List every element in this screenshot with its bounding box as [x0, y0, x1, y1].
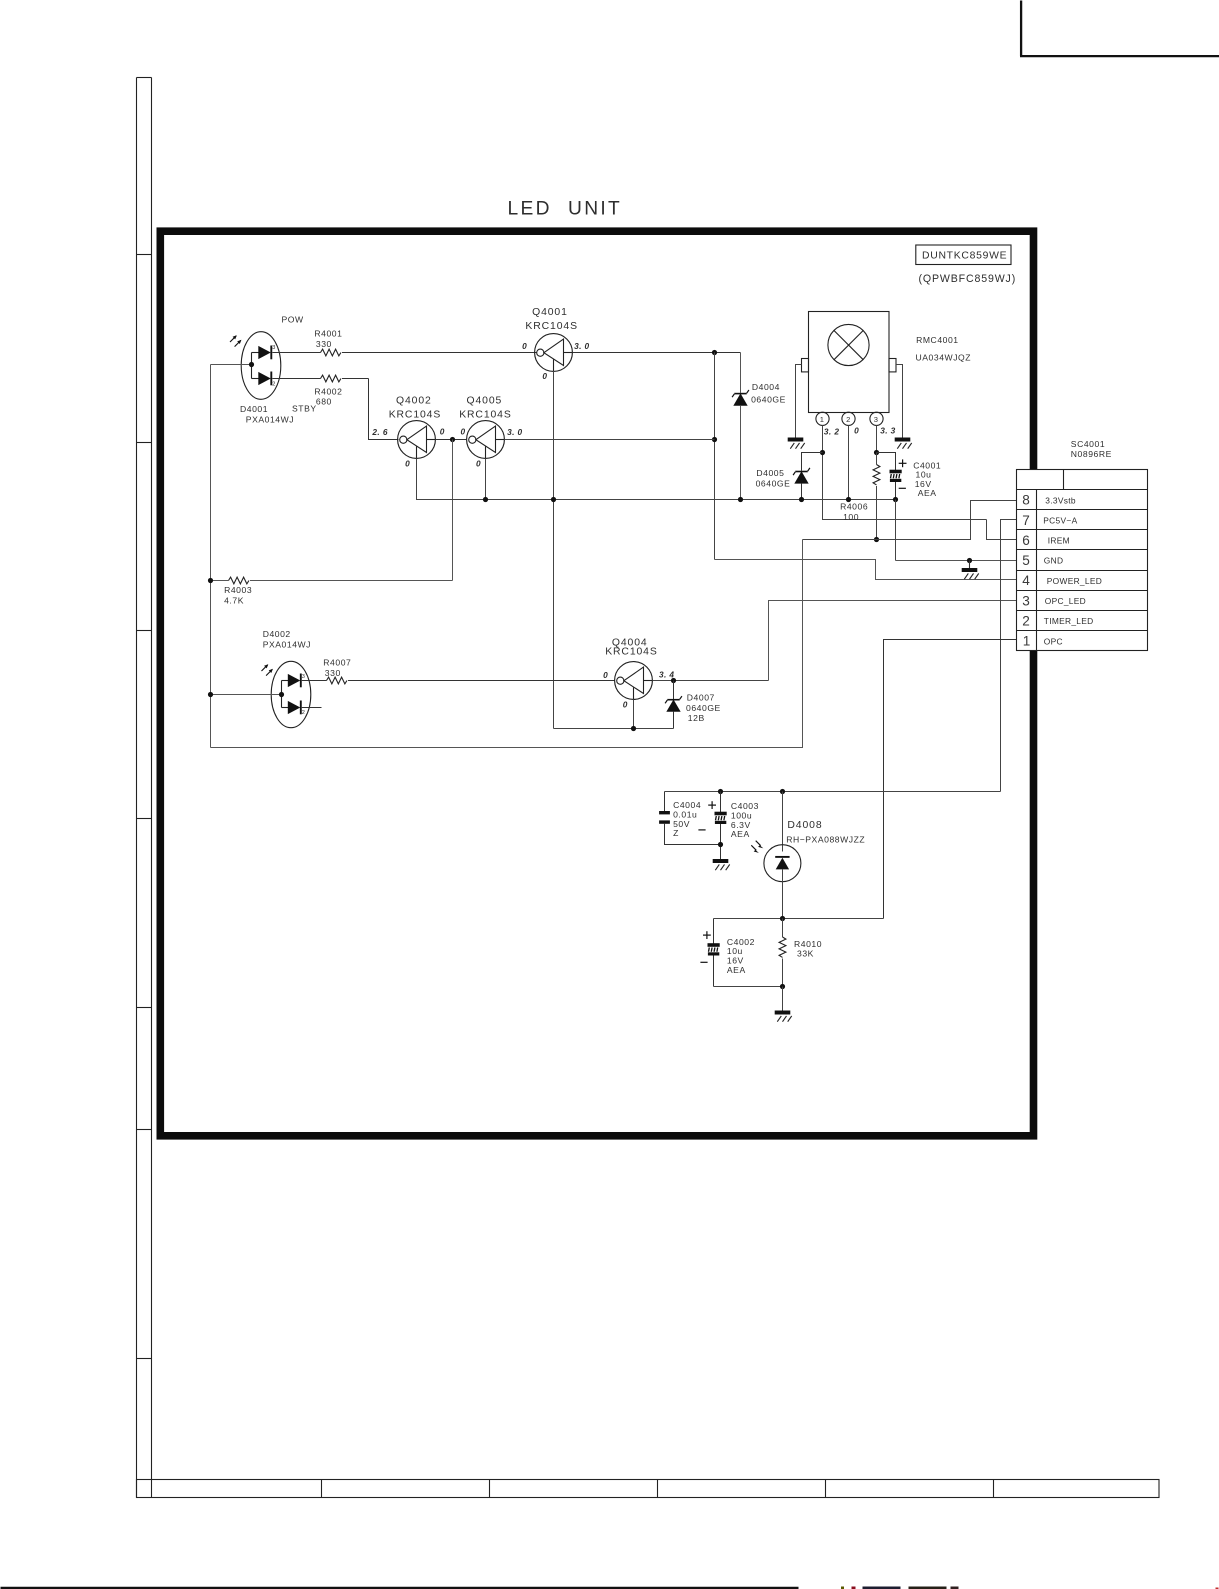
- wire Q4004 emitter down: [633, 700, 635, 729]
- node C4003/C4004 bottom junction: [718, 842, 723, 847]
- node chassis ground tap: [967, 558, 972, 563]
- svg-text:AEA: AEA: [918, 488, 937, 498]
- resistor R4001: [272, 349, 536, 356]
- svg-text:Z: Z: [673, 828, 679, 838]
- svg-text:1: 1: [820, 415, 824, 424]
- wire GND row5 to SC4001: [896, 560, 1018, 562]
- svg-text:N0896RE: N0896RE: [1071, 449, 1112, 459]
- svg-text:0: 0: [603, 670, 608, 680]
- svg-text:AEA: AEA: [727, 965, 746, 975]
- svg-text:D4007: D4007: [687, 693, 715, 703]
- wire OPC from SC4001 pin1: [884, 640, 1018, 919]
- wire D4002 lower cathode stub: [302, 707, 322, 709]
- svg-text:R4002: R4002: [314, 386, 342, 396]
- node D4008 top on rail: [780, 789, 785, 794]
- svg-text:AEA: AEA: [731, 829, 750, 839]
- svg-text:0: 0: [623, 700, 628, 710]
- node pin1 lead / D4005 branch: [820, 450, 825, 455]
- svg-text:PXA014WJ: PXA014WJ: [246, 415, 294, 425]
- svg-text:2. 6: 2. 6: [371, 427, 387, 437]
- svg-text:330: 330: [316, 339, 332, 349]
- svg-text:3.3Vstb: 3.3Vstb: [1045, 495, 1076, 505]
- svg-text:IREM: IREM: [1048, 536, 1070, 546]
- top-right corner frame box: [1020, 1, 1219, 57]
- svg-text:Q4001: Q4001: [532, 307, 568, 318]
- chassis ground symbol: [962, 561, 979, 580]
- wire collector rail vertical x714: [714, 353, 716, 560]
- capacitor C4002: [708, 919, 720, 987]
- wire D4001 common to left rail: [211, 364, 252, 366]
- node Q4002/Q4005 junction: [450, 437, 455, 442]
- svg-text:0: 0: [405, 459, 410, 469]
- svg-text:KRC104S: KRC104S: [605, 646, 658, 657]
- svg-text:UA034WJQZ: UA034WJQZ: [916, 352, 972, 362]
- svg-text:KRC104S: KRC104S: [525, 321, 578, 332]
- node D4008 bottom / R4010 top: [780, 916, 785, 921]
- svg-text:PC5V−A: PC5V−A: [1043, 515, 1077, 525]
- svg-text:OPC: OPC: [1044, 636, 1063, 646]
- wire Q4005 out to collector rail: [505, 439, 715, 441]
- wire D4002 common to left rail: [211, 694, 282, 696]
- node Q4004 out / D4007 junction: [671, 678, 676, 683]
- svg-text:33K: 33K: [797, 949, 814, 959]
- transistor Q4002 KRC104S: [398, 421, 436, 459]
- connector SC4001 N0896RE: [1017, 470, 1148, 651]
- svg-text:3. 4: 3. 4: [659, 670, 674, 680]
- node Q4005 emitter on bus: [483, 497, 488, 502]
- svg-text:D4005: D4005: [756, 468, 784, 478]
- svg-text:0: 0: [854, 426, 859, 436]
- resistor R4002: [272, 375, 368, 382]
- svg-text:(QPWBFC859WJ): (QPWBFC859WJ): [919, 273, 1017, 285]
- svg-text:PXA014WJ: PXA014WJ: [263, 640, 311, 650]
- wire Q4002 emitter to gnd bus: [417, 459, 486, 500]
- svg-text:R4006: R4006: [840, 502, 868, 512]
- zener D4004: [732, 353, 749, 500]
- DUNTKC859WE box: [916, 245, 1011, 265]
- capacitor C4003: [715, 792, 727, 860]
- svg-text:TIMER_LED: TIMER_LED: [1044, 616, 1094, 626]
- svg-text:KRC104S: KRC104S: [459, 409, 512, 420]
- svg-text:2: 2: [272, 381, 275, 387]
- ground below C4003: [713, 859, 730, 870]
- svg-text:680: 680: [316, 397, 332, 407]
- wire R4002 elbow down to Q4002 input: [369, 379, 399, 440]
- clipped footer text artifacts: [841, 1587, 1219, 1589]
- node Q4001 emitter on bus: [551, 497, 556, 502]
- svg-text:POW: POW: [282, 315, 305, 325]
- svg-text:STBY: STBY: [292, 403, 317, 413]
- resistor R4007: [302, 677, 615, 684]
- svg-text:12B: 12B: [688, 713, 705, 723]
- node left rail at D4002: [208, 692, 213, 697]
- svg-text:3: 3: [874, 415, 878, 424]
- svg-text:GND: GND: [1044, 556, 1064, 566]
- left margin ruler: [137, 78, 152, 1498]
- svg-text:2: 2: [846, 415, 850, 424]
- svg-text:0: 0: [440, 426, 445, 436]
- svg-text:KRC104S: KRC104S: [389, 409, 442, 420]
- svg-text:Q4005: Q4005: [467, 396, 503, 407]
- svg-text:0640GE: 0640GE: [756, 478, 791, 488]
- node R4003 on left rail: [208, 578, 213, 583]
- remote receiver RMC4001 UA034WJQZ: [802, 312, 897, 413]
- minus mark C4001: [899, 487, 906, 489]
- svg-text:0640GE: 0640GE: [751, 394, 786, 404]
- capacitor C4001: [877, 453, 902, 500]
- svg-text:3. 0: 3. 0: [574, 341, 589, 351]
- wire Q4002 out to Q4005 in: [436, 439, 467, 441]
- wire RMC left tab to ground: [796, 365, 802, 438]
- svg-text:3: 3: [1022, 593, 1030, 608]
- wire to ground below R4010: [782, 987, 784, 1011]
- wire RMC right tab to ground: [896, 365, 903, 438]
- svg-text:POWER_LED: POWER_LED: [1047, 576, 1102, 586]
- node R4006 bottom on 3.3Vstb rail: [874, 537, 879, 542]
- svg-text:0640GE: 0640GE: [686, 703, 721, 713]
- wire PC5V-A from SC4001 pin7: [1001, 520, 1018, 792]
- svg-text:1: 1: [1023, 634, 1031, 649]
- svg-text:3. 0: 3. 0: [507, 427, 522, 437]
- node D4005 on bus: [799, 497, 804, 502]
- svg-text:4.7K: 4.7K: [224, 595, 244, 605]
- svg-text:D4004: D4004: [752, 382, 780, 392]
- wire left rail vertical: [210, 365, 212, 748]
- node pin2 on bus: [846, 497, 851, 502]
- svg-text:RMC4001: RMC4001: [916, 335, 959, 345]
- wire pin3 lead: [876, 425, 878, 463]
- resistor R4010 vertical: [779, 919, 786, 987]
- svg-text:3: 3: [272, 345, 275, 351]
- capacitor C4004: [659, 792, 720, 845]
- node D4004 on bus: [738, 497, 743, 502]
- ground below R4010: [775, 1011, 792, 1022]
- node Q4001 out / collector rail junction: [712, 350, 717, 355]
- resistor R4006 vertical: [873, 453, 880, 540]
- bottom footer rule: [1, 1587, 799, 1589]
- node C4003 top on rail: [718, 789, 723, 794]
- svg-text:D4002: D4002: [263, 629, 291, 639]
- wire Q4001 output to POWER_LED elbow: [573, 352, 741, 354]
- wire left rail bottom to 3.3Vstb rail: [211, 540, 803, 748]
- svg-text:4: 4: [1022, 573, 1030, 588]
- svg-text:0: 0: [476, 459, 481, 469]
- svg-text:2: 2: [1022, 613, 1030, 628]
- resistor R4003: [211, 577, 453, 584]
- bottom revision band: [137, 1480, 1160, 1499]
- pin 1 of RMC4001: [816, 412, 829, 425]
- svg-text:3. 2: 3. 2: [824, 427, 839, 437]
- minus mark C4003: [698, 829, 705, 831]
- svg-text:SC4001: SC4001: [1071, 439, 1105, 449]
- ground bus horizontal: [486, 499, 896, 501]
- LED D4001 PXA014WJ (POW/STBY dual LED): [230, 332, 281, 400]
- wire Q4004 out to OPC_LED elbow: [653, 680, 769, 682]
- ground at RMC right tab: [895, 438, 912, 449]
- wire OPC_LED to SC4001 pin3: [769, 601, 1018, 681]
- svg-text:LED UNIT: LED UNIT: [508, 199, 623, 220]
- node D4001 common junction: [249, 362, 254, 367]
- wire gnd bus down to pin5 row: [895, 500, 897, 561]
- transistor Q4005 KRC104S: [467, 421, 505, 459]
- minus mark C4002: [700, 961, 707, 963]
- wire OPC node horizontal y918: [714, 918, 884, 920]
- LED D4002 PXA014WJ (OPC LED): [262, 661, 311, 727]
- plus mark C4003: [708, 801, 716, 809]
- svg-text:100: 100: [843, 512, 859, 522]
- transistor Q4001 KRC104S: [535, 334, 573, 372]
- plus mark C4001: [899, 459, 907, 467]
- transistor Q4004 KRC104S: [615, 662, 653, 700]
- svg-text:D4001: D4001: [240, 404, 268, 414]
- zener D4007: [665, 681, 682, 729]
- svg-text:7: 7: [1022, 513, 1030, 528]
- wire Q4005 emitter to bus: [485, 459, 487, 500]
- svg-text:R4003: R4003: [224, 585, 252, 595]
- svg-text:3. 3: 3. 3: [880, 426, 895, 436]
- svg-text:0: 0: [522, 341, 527, 351]
- svg-text:3: 3: [302, 674, 305, 680]
- svg-text:R4001: R4001: [314, 329, 342, 339]
- svg-text:5: 5: [1022, 553, 1030, 568]
- svg-text:6: 6: [1022, 533, 1030, 548]
- node D4002 common junction: [279, 692, 284, 697]
- wire PC5V rail horizontal y791: [665, 791, 1001, 793]
- pin 3 of RMC4001: [870, 412, 883, 425]
- wire POWER_LED run to SC4001 pin4: [715, 560, 1018, 580]
- plus mark C4002: [703, 931, 711, 939]
- node R4010 bottom: [780, 984, 785, 989]
- svg-text:2: 2: [302, 710, 305, 716]
- pin 2 of RMC4001: [842, 412, 855, 425]
- wire IREM elbow to SC4001 pin6: [987, 520, 1018, 540]
- svg-text:RH−PXA088WJZZ: RH−PXA088WJZZ: [786, 835, 865, 845]
- svg-text:8: 8: [1022, 493, 1030, 508]
- node collector rail joins Q4005 output: [712, 437, 717, 442]
- schematic thick border: [160, 231, 1033, 1136]
- wire Q4004 emitter ground run: [554, 728, 674, 730]
- wire junction down to R4003: [452, 440, 454, 581]
- node Q4004 emitter: [631, 726, 636, 731]
- node C4001 bottom on bus: [893, 497, 898, 502]
- wire C4002 bottom to R4010 bottom: [714, 986, 783, 988]
- ground at RMC left tab: [788, 438, 805, 449]
- svg-text:OPC_LED: OPC_LED: [1045, 596, 1086, 606]
- svg-text:0: 0: [461, 426, 466, 436]
- svg-text:Q4002: Q4002: [396, 396, 432, 407]
- wire pin1 IREM lead: [823, 425, 987, 519]
- photodiode D4008 RH-PXA088WJZZ: [751, 792, 801, 919]
- svg-text:DUNTKC859WE: DUNTKC859WE: [922, 251, 1007, 262]
- node pin3 / C4001 branch: [874, 450, 879, 455]
- svg-text:0: 0: [542, 371, 547, 381]
- zener D4005: [793, 453, 822, 500]
- svg-text:D4008: D4008: [787, 820, 822, 831]
- wire pin2 to gnd bus: [848, 425, 850, 499]
- wire Q4001 emitter down to ground bus and OPC ground rail: [553, 371, 555, 729]
- svg-text:330: 330: [325, 668, 341, 678]
- wire 3.3Vstb rail: [803, 501, 1018, 540]
- svg-text:R4007: R4007: [323, 658, 351, 668]
